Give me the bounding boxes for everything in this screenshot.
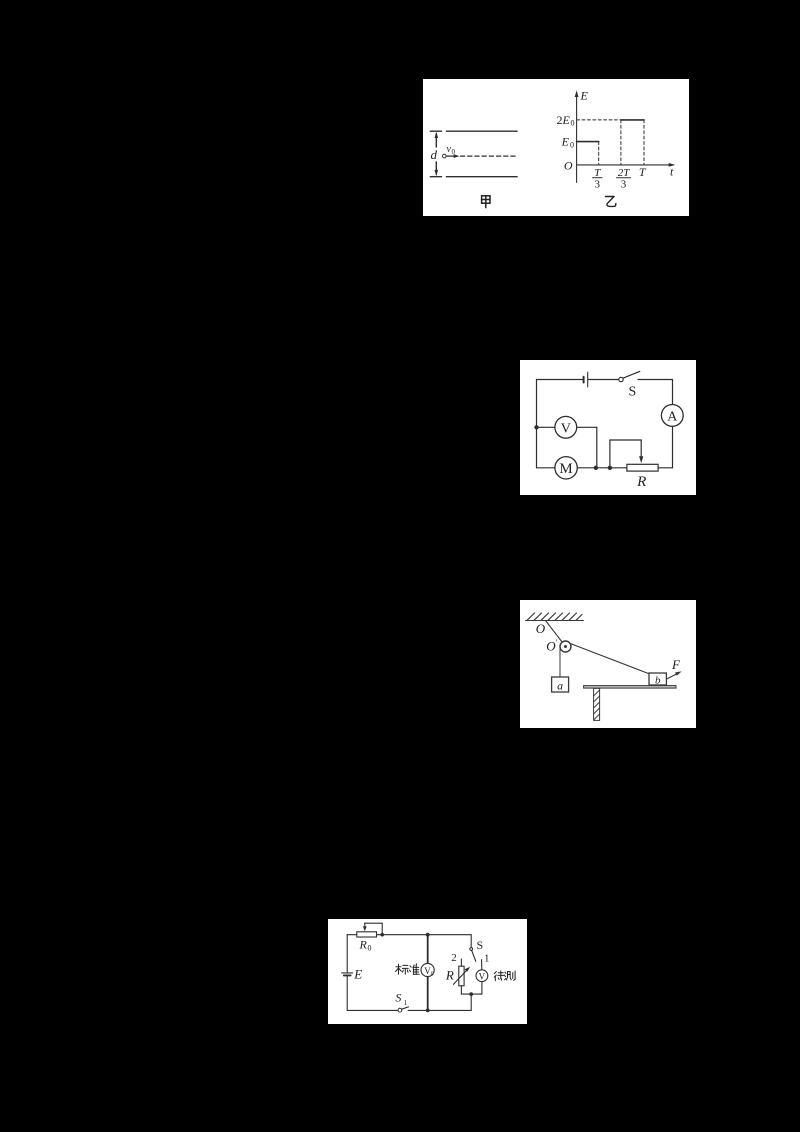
- battery E: [342, 972, 353, 974]
- rheostat R0 body: [357, 932, 377, 937]
- wire bottom left: [347, 1009, 398, 1011]
- ammeter A: [661, 405, 683, 427]
- junction node V-bottom: [594, 466, 598, 470]
- svg-text:0: 0: [368, 944, 372, 953]
- d dimension arrow: [435, 134, 437, 147]
- string pulley to block a: [559, 648, 561, 677]
- wire right lower: [672, 426, 674, 468]
- E axis (vertical): [577, 93, 672, 182]
- junction node slider: [608, 466, 612, 470]
- svg-text:t: t: [670, 165, 674, 179]
- junction node right of R0: [380, 933, 384, 937]
- rheostat R0 slider loop: [365, 923, 382, 935]
- label ce (测): [504, 971, 515, 980]
- junction node V0 top: [426, 933, 430, 937]
- ceiling line: [526, 620, 584, 622]
- wire left side: [536, 380, 538, 468]
- thermistor diagonal arrow: [453, 969, 468, 985]
- svg-text:1: 1: [404, 999, 408, 1007]
- svg-text:d: d: [431, 147, 438, 162]
- contact 1 lead: [481, 960, 483, 970]
- pulley O': [560, 641, 571, 652]
- svg-text:A: A: [667, 409, 678, 424]
- svg-text:0: 0: [571, 119, 575, 128]
- svg-text:V: V: [561, 421, 571, 436]
- svg-text:2: 2: [451, 952, 457, 964]
- dashed vertical at 2T/3: [620, 120, 622, 165]
- voltmeter V0 lead (thick): [427, 935, 429, 1011]
- tick top for d dimension: [430, 130, 441, 132]
- wire left side lower: [346, 975, 348, 1010]
- svg-text:V: V: [479, 971, 486, 981]
- svg-text:S: S: [477, 938, 484, 952]
- svg-text:a: a: [557, 679, 563, 693]
- svg-text:': ': [556, 638, 558, 647]
- svg-text:M: M: [559, 461, 572, 477]
- ceiling hatching: [527, 613, 582, 620]
- label zhun (准): [409, 964, 419, 975]
- svg-text:S: S: [395, 991, 401, 1005]
- table leg: [594, 688, 600, 720]
- wire top right of R0: [377, 934, 472, 936]
- svg-text:O: O: [564, 159, 573, 173]
- svg-text:T: T: [594, 167, 601, 179]
- svg-text:O: O: [546, 639, 556, 654]
- capacitor top plate: [446, 130, 517, 132]
- wire bottom: [537, 467, 673, 469]
- force F arrow: [667, 673, 679, 679]
- dashed trajectory: [461, 155, 517, 157]
- rheostat R body: [627, 464, 658, 471]
- voltmeter V: [555, 416, 577, 438]
- block b: [649, 673, 666, 685]
- dashed vertical at T: [643, 120, 645, 165]
- svg-text:E: E: [562, 113, 571, 127]
- svg-text:R: R: [359, 938, 368, 952]
- junction node left: [534, 425, 538, 429]
- wire right upper: [672, 380, 674, 405]
- wire right top corner down to S: [470, 935, 472, 948]
- label yi (乙): [606, 197, 616, 207]
- battery: [583, 377, 585, 383]
- leg hatching: [594, 690, 600, 720]
- motor M: [555, 457, 577, 479]
- svg-text:E: E: [353, 967, 362, 982]
- switch S: [619, 377, 623, 381]
- wire battery to switch: [588, 379, 619, 381]
- voltmeter V (dai ce): [476, 970, 488, 982]
- voltmeter V0: [421, 963, 434, 976]
- switch S1: [398, 1008, 402, 1012]
- wire top left: [347, 934, 357, 936]
- tick bottom for d dimension: [430, 176, 441, 178]
- contact 2 lead: [460, 959, 462, 966]
- wire V branch right: [577, 426, 597, 428]
- step 1 solid E0: [577, 141, 599, 143]
- svg-text:3: 3: [595, 178, 601, 190]
- svg-text:3: 3: [621, 178, 627, 190]
- wire bottom right: [408, 1009, 471, 1011]
- dashed horizontal at 2E0: [577, 119, 621, 121]
- label biao (标): [396, 964, 409, 974]
- particle circle: [443, 154, 447, 158]
- switch S (two position): [470, 948, 473, 951]
- table top: [584, 686, 676, 689]
- block a: [552, 677, 569, 692]
- svg-text:0: 0: [431, 972, 434, 978]
- string pulley to block b: [569, 643, 651, 675]
- label dai (待): [494, 971, 504, 981]
- wire V branch left: [537, 426, 555, 428]
- svg-text:0: 0: [570, 140, 574, 149]
- svg-text:b: b: [655, 675, 661, 687]
- v0 velocity arrow: [446, 155, 456, 157]
- svg-text:T: T: [639, 165, 647, 179]
- svg-text:R: R: [636, 474, 646, 490]
- svg-text:R: R: [445, 968, 454, 983]
- label jia (甲): [482, 196, 490, 208]
- wire left side upper: [346, 935, 348, 973]
- svg-text:E: E: [580, 89, 589, 103]
- svg-text:1: 1: [484, 952, 490, 964]
- wire top left: [537, 379, 584, 381]
- dashed vertical at T/3: [598, 142, 600, 165]
- string O to pulley: [546, 621, 565, 645]
- capacitor bottom plate: [446, 176, 517, 178]
- svg-text:O: O: [536, 621, 546, 636]
- svg-text:S: S: [629, 385, 637, 400]
- step 2 solid 2E0: [621, 119, 644, 121]
- junction node V0 bottom: [426, 1009, 430, 1013]
- svg-text:E: E: [561, 135, 570, 149]
- t axis (horizontal): [577, 164, 672, 166]
- wire R bottom: [461, 982, 482, 1011]
- svg-text:F: F: [671, 657, 681, 672]
- thermistor R body: [459, 966, 464, 986]
- svg-text:2T: 2T: [618, 167, 631, 179]
- rheostat slider loop: [610, 440, 641, 468]
- junction node below switch branch: [469, 992, 473, 996]
- wire switch to corner: [638, 379, 673, 381]
- svg-text:0: 0: [452, 148, 456, 156]
- d arrowheads: [435, 132, 439, 177]
